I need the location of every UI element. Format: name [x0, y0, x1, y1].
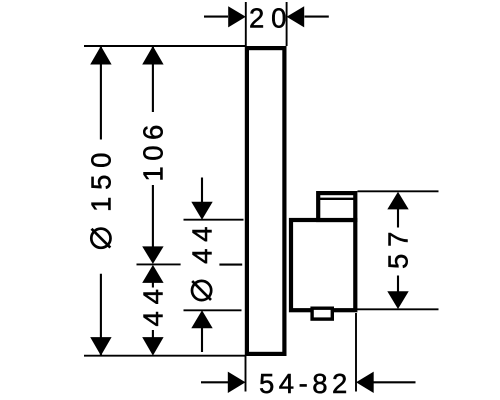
- svg-text:57: 57: [383, 225, 414, 269]
- knob (cartridge top): [317, 193, 356, 220]
- dimension 20 (top): arrows and leaders: [204, 6, 329, 27]
- dimension Ø150: diameter symbol: [91, 229, 110, 248]
- dimension Ø44: arrows and leaders: [191, 178, 212, 353]
- svg-text:44: 44: [187, 220, 218, 264]
- bottom extension line (plate bottom): [84, 355, 245, 357]
- dimension 57: line and arrows: [387, 192, 408, 309]
- dimension 57 (right): extension lines: [357, 191, 439, 309]
- dimension Ø44: diameter symbol: [192, 281, 211, 300]
- dimension 44 (left-lower): line and arrows: [142, 265, 163, 356]
- centreline of handle: [219, 264, 242, 266]
- handle body: [291, 220, 355, 310]
- svg-text:106: 106: [138, 119, 169, 181]
- dimension Ø44 (centre): extension lines: [184, 220, 244, 311]
- svg-text:44: 44: [138, 282, 169, 326]
- dimension Ø150 (left): line and arrows: [90, 46, 111, 356]
- extension line at handle centre (106/44 boundary): [137, 263, 181, 265]
- dimension 54-82 (bottom): extension lines: [246, 313, 357, 392]
- dimension 54-82: arrows and leaders: [201, 372, 416, 393]
- svg-text:54-82: 54-82: [259, 368, 352, 399]
- plate (mixer escutcheon, side view): [247, 48, 285, 354]
- bottom tab: [312, 308, 332, 319]
- svg-text:150: 150: [86, 146, 117, 212]
- dimension 106 (left-middle): line and arrows: [142, 46, 163, 264]
- dimension 20 (top): extension lines: [246, 2, 287, 46]
- svg-text:20: 20: [249, 2, 293, 33]
- top extension line (plate top, for 150 and 106): [84, 45, 245, 47]
